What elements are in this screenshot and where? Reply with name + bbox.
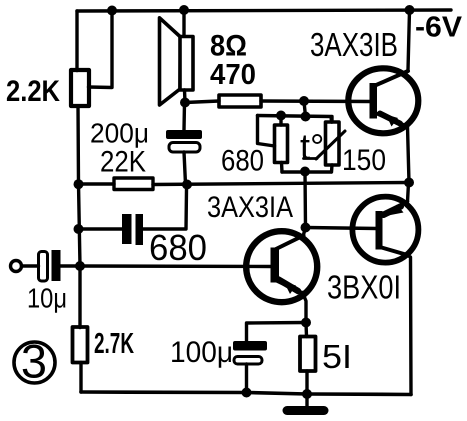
wire 2.2K tap to top rail xyxy=(89,11,113,88)
node ground junction xyxy=(302,389,312,399)
capacitor 680 xyxy=(79,227,123,230)
svg-text:3AX3IA: 3AX3IA xyxy=(207,191,293,224)
wire emitter 3BX01 to rail node xyxy=(408,183,409,202)
wire base 3BX01 xyxy=(306,228,378,229)
node speaker bottom junction xyxy=(180,98,190,108)
wire base 3AX31A xyxy=(80,264,273,268)
node 470 wire junction xyxy=(299,96,309,106)
wire collector 3BX01 down right edge xyxy=(408,256,412,395)
thermistor 150 xyxy=(326,122,340,165)
svg-text:680: 680 xyxy=(221,145,264,178)
resistor 22K xyxy=(114,178,153,190)
node emitter rail right junction xyxy=(404,178,414,188)
svg-text:-6V: -6V xyxy=(415,12,463,44)
resistor 2.2K xyxy=(71,70,89,106)
resistor 680 shunt xyxy=(275,125,288,163)
wire middle rail right xyxy=(153,183,409,185)
capacitor 200u xyxy=(182,103,186,131)
figure number circle 3 xyxy=(14,342,55,383)
node base 3BX01 junction xyxy=(301,223,311,233)
node collector 3AX31B top junction xyxy=(405,5,415,15)
svg-text:3: 3 xyxy=(21,335,47,388)
node emitter/51 junction xyxy=(301,318,311,328)
resistor 2.7K xyxy=(73,327,88,363)
svg-text:3AX3IB: 3AX3IB xyxy=(310,26,398,63)
input terminal xyxy=(11,261,22,272)
node top-left junction xyxy=(107,6,117,16)
transistor V3 3BX01 xyxy=(352,197,418,263)
wire to 51 xyxy=(304,323,308,337)
thermistor group bottom wire xyxy=(282,170,331,173)
speaker LS xyxy=(182,10,185,37)
svg-text:3BX0I: 3BX0I xyxy=(327,269,401,306)
node group top left xyxy=(276,111,286,121)
node middle rail left junction xyxy=(74,179,84,189)
wire middle rail left xyxy=(79,182,115,185)
svg-text:680: 680 xyxy=(149,227,207,268)
wire left rail middle xyxy=(78,106,80,328)
wire collector 3AX31A xyxy=(303,228,306,237)
node group top right xyxy=(301,112,311,122)
svg-text:200μ: 200μ xyxy=(90,118,149,149)
svg-text:22K: 22K xyxy=(100,146,146,179)
wire collector 3AX31B to top rail xyxy=(408,11,410,71)
wire stub group to 470 wire xyxy=(304,102,306,117)
svg-text:150: 150 xyxy=(342,144,386,177)
resistor 470 xyxy=(219,95,261,107)
wire thermistor group to base node xyxy=(303,172,307,228)
node group bottom xyxy=(300,167,310,177)
svg-text:470: 470 xyxy=(210,59,256,91)
svg-text:2.2K: 2.2K xyxy=(6,75,60,108)
wire 470 branch xyxy=(185,101,219,103)
node speaker top junction xyxy=(179,5,189,15)
capacitor 100u xyxy=(247,323,307,342)
transistor V1 3AX31A xyxy=(246,231,317,302)
svg-text:10μ: 10μ xyxy=(27,283,67,314)
wire top supply rail xyxy=(77,10,451,11)
svg-text:t°: t° xyxy=(300,126,324,167)
svg-text:2.7K: 2.7K xyxy=(94,328,134,360)
capacitor 10u xyxy=(22,264,39,267)
ground xyxy=(305,394,308,407)
wire bracket left of 680 xyxy=(258,116,275,147)
svg-text:100μ: 100μ xyxy=(170,336,233,369)
wire left rail lower xyxy=(79,363,82,393)
resistor 51 xyxy=(300,337,316,372)
node 100u bottom junction xyxy=(242,388,252,398)
transistor V2 3AX31B xyxy=(348,68,418,133)
wire emitter 3AX31B down xyxy=(408,127,410,183)
wire emitter 3AX31A xyxy=(303,293,307,323)
node 680 cap left junction xyxy=(74,224,84,234)
svg-text:8Ω: 8Ω xyxy=(210,30,247,63)
wire left rail upper xyxy=(75,11,78,71)
wire bottom rail xyxy=(81,392,411,395)
node 200u/680 junction xyxy=(182,180,192,190)
node input junction xyxy=(75,261,85,271)
thermistor group top wire xyxy=(258,116,332,123)
svg-text:5I: 5I xyxy=(322,338,352,375)
